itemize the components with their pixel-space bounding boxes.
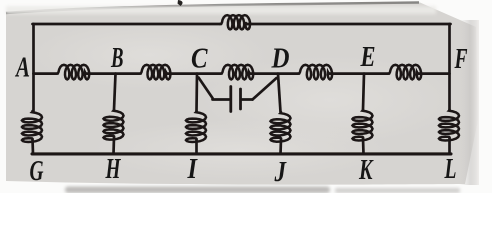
wire E down — [363, 74, 364, 110]
capacitor left plate — [229, 87, 232, 112]
svg-text:A: A — [15, 53, 30, 84]
resistor D-J — [271, 112, 291, 142]
wire A to resistor A-B — [34, 72, 57, 75]
wire resistor C-D to D — [251, 72, 298, 75]
svg-text:F: F — [454, 44, 468, 75]
svg-text:B: B — [110, 43, 123, 74]
resistor B-H — [104, 110, 124, 140]
resistor E-K — [353, 110, 373, 141]
svg-text:D: D — [271, 44, 290, 75]
wire resistor B-C to C — [168, 72, 221, 75]
wire right edge (F side) — [448, 24, 451, 110]
svg-text:C: C — [191, 44, 208, 75]
wire left edge (A side) — [32, 24, 35, 111]
wire capacitor left lead — [213, 98, 230, 101]
wire capacitor right lead — [242, 98, 253, 101]
wire resistor A-B to B — [87, 72, 140, 75]
resistor A-G (left edge) — [22, 111, 42, 142]
svg-text:E: E — [360, 42, 376, 73]
svg-text:L: L — [444, 154, 457, 185]
wire C down — [195, 74, 198, 111]
capacitor right plate — [239, 89, 242, 109]
resistor A-B — [57, 65, 90, 80]
resistor F-L (right edge) — [439, 110, 459, 141]
wire right edge lower (to L) — [448, 138, 451, 154]
resistor E-F — [388, 65, 421, 80]
wire C to capacitor (diagonal) — [199, 78, 213, 99]
svg-text:K: K — [358, 155, 374, 186]
resistor top (parallel, corner to corner) — [220, 15, 250, 29]
wire C branch to I — [195, 140, 198, 154]
wire B branch to H — [112, 137, 115, 154]
wire top left segment — [33, 23, 221, 26]
wire resistor E-F to F — [419, 72, 450, 75]
resistor D-E — [298, 65, 332, 80]
resistor C-I — [186, 111, 206, 142]
wire left edge lower (to G) — [31, 140, 34, 154]
wire D branch to J — [279, 139, 282, 154]
wire E branch to K — [362, 138, 365, 154]
wire capacitor to D (diagonal) — [253, 78, 277, 100]
resistor B-C — [140, 65, 171, 80]
svg-text:G: G — [30, 156, 44, 187]
svg-text:I: I — [187, 154, 198, 185]
wire D down — [278, 74, 281, 112]
wire B down — [114, 74, 116, 110]
svg-text:J: J — [274, 157, 287, 188]
wire resistor D-E to E — [330, 72, 388, 75]
resistor C-D — [221, 65, 254, 80]
wire bottom (G to L) — [32, 152, 451, 155]
svg-text:H: H — [105, 154, 122, 185]
wire top right segment — [248, 23, 451, 26]
